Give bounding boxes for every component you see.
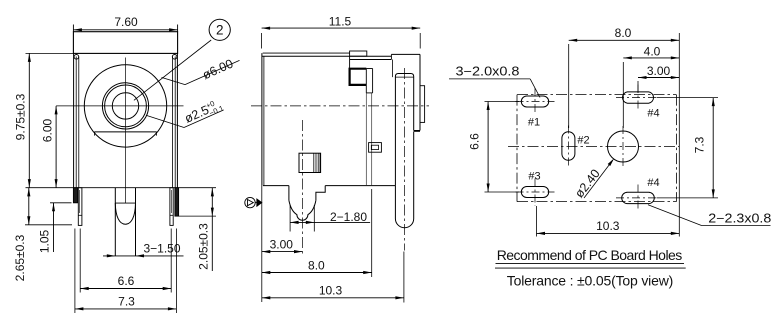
front view: dimension 2.65±0.3 [28,188,30,225]
side view: rear block top [391,53,420,55]
side view: dimension 3.00 [262,251,303,253]
front view: right shield pin (hatched) [175,188,179,216]
svg-text:#4: #4 [647,177,659,189]
pcb view: dimension 7.3 [712,98,714,198]
svg-text:Tolerance : ±0.05(Top view): Tolerance : ±0.05(Top view) [507,273,674,289]
side view: dim 2-1.80 extension lines [289,205,291,232]
pcb view: 4.0 extension from center hole [622,62,624,128]
pcb view: slot #3 centerlines [516,191,555,193]
front view: label phi2.5 +0/-0.1 [182,96,225,128]
svg-text:7.60: 7.60 [114,15,138,29]
side view: rear block right edge [419,54,421,130]
pcb view: center hole vertical centerline [622,126,624,167]
pcb view: leader phi2.40 with arrow [584,161,613,199]
front view: top cap outline [73,32,177,54]
pcb view: slot hole #3 (2.0x0.8) [521,187,548,198]
side view: datum symbol on left face [245,197,255,207]
svg-text:Recommend of PC Board Holes: Recommend of PC Board Holes [497,247,683,263]
svg-text:7.3: 7.3 [692,136,706,153]
pcb view: 3.00 extension from slot #4 [637,81,639,93]
side view: top lip line [263,52,350,54]
front view: dimension 1.05 [53,203,55,252]
front view: center pin hole circle phi2.5 [112,93,138,119]
front view: contact ring inner circle [105,85,147,127]
side view: bottom step at pin1 [288,186,290,201]
svg-text:2: 2 [216,23,224,38]
front view: dim 7.60 extension lines [72,25,74,32]
front view: dimension 6.6 [80,288,171,290]
side view: right face of front body [371,93,373,186]
front view: balloon circled 2 [209,19,230,40]
svg-text:2−1.80: 2−1.80 [330,210,367,224]
pcb view: 10.3 extension line left [536,206,538,237]
front view: body right inner wall (double line) [172,57,174,188]
front view: key chord end ticks [94,132,96,136]
front view: body bottom edge with side extensions [26,187,217,189]
side view: V pin centerline [301,120,303,256]
side view: body top edge [262,55,392,57]
side view: shield notch thick outline [349,56,351,68]
front view: center pin U-notch arc [115,203,135,224]
side view: terminal box outer [369,143,382,153]
side view: rear pin centerline [404,68,406,251]
side view: V-shaped pin profile [289,200,316,220]
side view: top tab [350,51,367,56]
side view: inner wall line below flag [365,93,367,186]
svg-text:4.0: 4.0 [644,45,661,59]
side view: left face (double line) [261,53,263,186]
front view: barrel outer circle phi6.00 [84,65,166,147]
front view: body right outer wall [176,53,178,187]
front view: balloon leader to contact 2 [134,40,211,100]
pcb view: dimension 3.00 [638,77,679,79]
front view: right terminal pin [170,188,173,226]
svg-text:10.3: 10.3 [596,219,620,233]
front view: dim 9.75 top extension line [26,52,74,54]
side view: bottom edge segments [263,185,289,187]
pcb view: center hole phi2.40 [608,131,639,162]
side view: terminal box inner [371,145,378,149]
pcb view: dimension 4.0 [623,57,679,59]
side view: bottom step right of V pin [316,186,325,201]
side view: rear pin (rounded leg) [395,74,413,186]
pcb view: note underline double [496,262,685,264]
side view: dimension 10.3 [262,297,404,299]
front view: vertical centerline [125,58,127,204]
side view: left edge extension line down [261,186,263,302]
side view: 8.0 extension line [371,189,373,277]
pcb view: right extension line for dims [678,33,680,237]
side view: rear block step to pin [414,130,420,132]
front view: dimension 6.00 [55,106,57,188]
front view: horizontal centerline [56,105,183,107]
front view: right pin bottom extension line 2.05 [179,215,216,217]
pcb view: horizontal centerline [508,146,679,148]
front view: left shield pin (hatched) [73,188,77,203]
pcb view: slot hole #4 bottom (2.3x0.8) [622,192,655,203]
svg-text:2−2.3x0.8: 2−2.3x0.8 [708,212,771,226]
front view: dim 6.6 extension lines [79,229,81,293]
pcb view: dimension 6.6 [487,102,489,193]
svg-text:2.05±0.3: 2.05±0.3 [197,223,211,270]
side view: rear block left joint [390,54,392,59]
svg-text:#3: #3 [528,171,540,183]
side view: rear block inner vertical [392,60,394,78]
front view: contact ring outer circle [102,83,148,129]
pcb view: slot #4 top centerlines [616,97,657,99]
front view: dim 7.3 extension lines [74,229,76,314]
front view: key chord across barrel [94,131,156,133]
side view: horizontal centerline [251,105,429,107]
front view: 1.05 step extension line [50,202,72,204]
svg-text:8.0: 8.0 [615,26,632,40]
pcb view: dimension 10.3 [537,232,680,234]
pcb view: slot #2 vertical centerline [567,126,569,167]
front view: dimension 7.60 [73,29,177,31]
svg-text:8.0: 8.0 [308,258,325,272]
pcb view: 6.6 extension lines [485,101,520,103]
front view: dimension 3-1.50 (center pin width) [103,255,184,257]
svg-text:11.5: 11.5 [329,14,352,28]
pcb view: slot #1 centerlines [516,101,555,103]
svg-text:6.6: 6.6 [118,274,135,288]
pcb view: slot #4 bottom centerlines [616,197,657,199]
svg-text:3.00: 3.00 [270,238,294,252]
front view: dimension 2.05&#177;0.3 line [211,188,213,271]
side view: dimension 2-1.80 [290,221,370,223]
svg-text:9.75±0.3: 9.75±0.3 [13,93,27,140]
front view: body left inner wall (double line) [75,57,77,188]
front view: top-right corner fillet [172,55,177,60]
pcb view: slot hole #4 top (2.3x0.8) [622,92,653,103]
side view: shield fold flag [365,69,367,93]
pcb view: dimension 8.0 [569,39,680,41]
svg-text:#4: #4 [647,107,659,119]
front view: center pin chord [115,202,135,204]
side view: pin cross-section square [299,153,321,172]
side view: inner top line [350,59,392,61]
front view: top-left corner fillet [74,55,79,60]
svg-text:3−2.0x0.8: 3−2.0x0.8 [456,64,520,78]
pcb view: 8.0 extension from slot #2 [568,44,570,128]
svg-text:2.65±0.3: 2.65±0.3 [13,234,27,281]
front view: left terminal pin [78,188,82,226]
svg-text:6.6: 6.6 [468,133,482,150]
side view: dim 11.5 extension lines [261,33,263,49]
front view: body left outer wall [73,53,75,187]
svg-text:7.3: 7.3 [118,294,135,308]
svg-text:3−1.50: 3−1.50 [143,241,180,255]
svg-text:10.3: 10.3 [319,284,343,298]
side view: rear clip tab [420,86,425,123]
side view: square hatch lines [313,153,315,172]
pcb view: 7.3 extension lines [657,97,719,99]
svg-text:1.05: 1.05 [38,229,52,253]
front view: leader for phi6.00 [162,77,186,84]
pcb view: board outline (phantom rect) [517,94,676,96]
front view: leader for phi2.5 [146,115,184,127]
pcb view: slot hole #2 vertical (2.0x0.8) [562,132,575,161]
front view: dimension 9.75±0.3 [28,53,30,187]
svg-text:#2: #2 [577,135,589,147]
side view: dimension 8.0 [262,272,372,274]
front view: dimension 7.3 [75,308,176,310]
side view: rear pin lower part with round bottom [395,132,413,228]
svg-text:3.00: 3.00 [647,64,671,78]
front view: center pin sides [114,188,116,256]
svg-text:#1: #1 [528,117,540,129]
side view: dimension 11.5 [262,27,421,29]
svg-text:6.00: 6.00 [40,118,54,142]
pcb view: slot hole #1 (2.0x0.8) [521,96,548,107]
side view: 10.3 extension line [403,252,405,303]
front view: left pin bottom extension line [25,224,72,226]
